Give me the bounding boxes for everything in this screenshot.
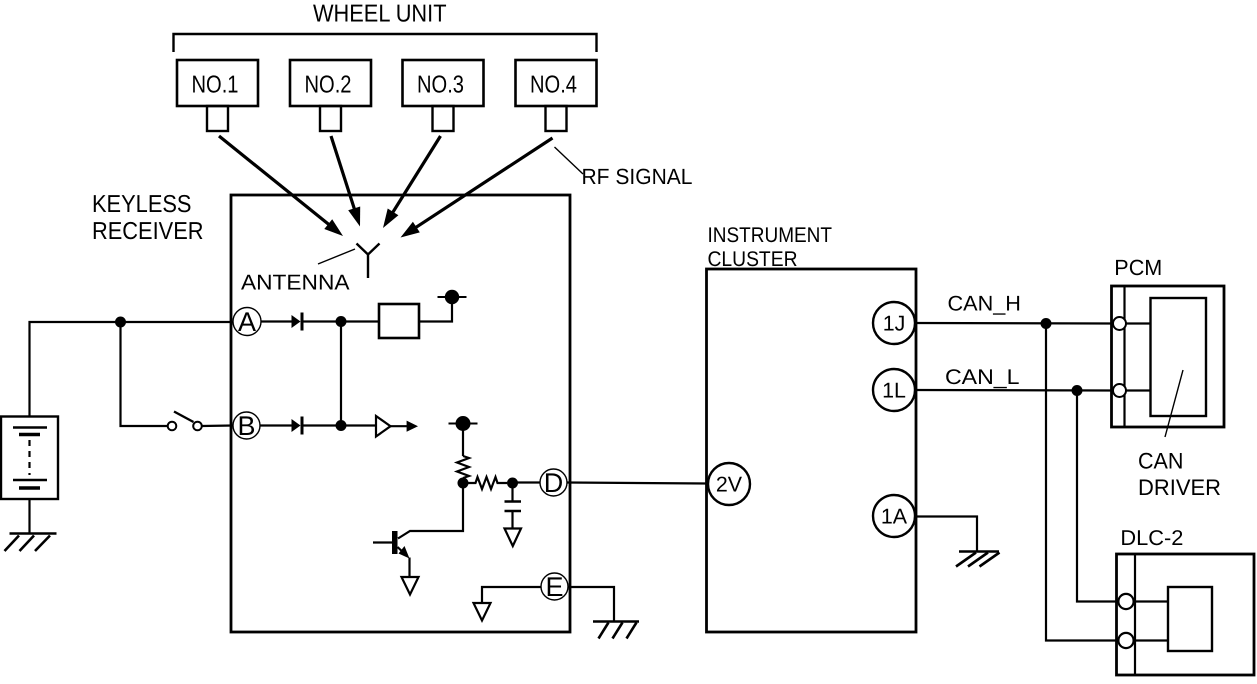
wire B to diode (260, 424, 292, 426)
wire supply to resistor R1 (462, 430, 464, 456)
terminal B (233, 411, 260, 441)
wire DLC-2 pin to block (H) (1134, 639, 1169, 641)
svg-text:RF SIGNAL: RF SIGNAL (582, 164, 693, 189)
wire 1A to chassis ground (915, 517, 977, 552)
terminal 1A (873, 495, 915, 537)
junction dot CAN_L (1072, 385, 1083, 396)
PCM pin CAN_H (1113, 317, 1126, 330)
svg-text:ANTENNA: ANTENNA (241, 271, 350, 295)
svg-text:CAN_L: CAN_L (945, 366, 1020, 389)
DLC-2 connector strip (1134, 554, 1136, 675)
wire E to internal ground (482, 587, 541, 603)
capacitor C1 (505, 483, 522, 529)
svg-text:D: D (544, 468, 564, 498)
chassis ground (1A) (956, 552, 1000, 567)
wire filter to supply (419, 300, 452, 322)
svg-text:RECEIVER: RECEIVER (92, 218, 204, 245)
PCM box (1112, 286, 1225, 427)
wire diode to amplifier (304, 424, 377, 426)
wheel unit sensor NO.4 (516, 60, 597, 131)
junction dot output node (507, 478, 518, 489)
wire diode to junction to filter (304, 320, 380, 322)
PCM pin CAN_L (1113, 384, 1126, 397)
chassis ground (battery) (5, 534, 57, 552)
wire switch to terminal B (202, 424, 233, 427)
wire CAN_L branch to DLC-2 (1077, 391, 1119, 602)
RF SIGNAL callout line (555, 147, 584, 174)
wire D to instrument cluster 2V (567, 483, 708, 484)
transistor Q1 (373, 531, 410, 559)
DLC-2 pin CAN_H (1118, 633, 1133, 648)
wire DLC-2 pin to block (L) (1134, 600, 1169, 602)
wire CAN_H branch to DLC-2 (1046, 324, 1119, 641)
wheel unit sensor NO.1 (177, 60, 258, 131)
terminal E (541, 572, 568, 602)
wheel unit sensor NO.2 (290, 60, 371, 131)
svg-text:DRIVER: DRIVER (1138, 475, 1221, 500)
switch (168, 412, 202, 431)
resistor R1 (vertical) (457, 456, 469, 478)
RF signal arrow from NO.4 to antenna (401, 138, 553, 238)
svg-text:1L: 1L (882, 379, 906, 403)
instrument cluster box (707, 269, 917, 632)
DLC-2 pin CAN_L (1118, 594, 1133, 609)
wire junction down to switch (121, 322, 169, 426)
signal ground (emitter) (402, 577, 419, 595)
svg-text:KEYLESS: KEYLESS (92, 191, 192, 218)
RF signal arrow from NO.3 to antenna (383, 136, 441, 228)
supply tap (A line) (438, 290, 467, 304)
svg-text:CLUSTER: CLUSTER (708, 248, 798, 271)
junction dot CAN_H (1041, 318, 1052, 329)
svg-text:DLC-2: DLC-2 (1120, 526, 1183, 550)
antenna callout line (318, 249, 355, 264)
wire 1J to PCM (CAN_H) (915, 322, 1114, 325)
svg-text:B: B (237, 411, 255, 441)
wire A to diode (261, 320, 292, 322)
terminal 2V (708, 463, 750, 505)
CAN driver block (1151, 298, 1207, 416)
terminal D (540, 468, 567, 498)
PCM connector strip (1123, 286, 1125, 427)
terminal 1J (873, 302, 915, 344)
amplifier buffer (376, 416, 418, 437)
svg-text:NO.1: NO.1 (192, 72, 239, 99)
junction dot node B line (336, 420, 347, 431)
svg-text:1J: 1J (883, 312, 906, 336)
antenna symbol (357, 244, 380, 279)
junction dot node A line (336, 316, 347, 327)
svg-text:2V: 2V (716, 473, 743, 497)
wire E to chassis ground (568, 587, 614, 622)
wire detector node to transistor collector (398, 483, 463, 539)
svg-text:A: A (238, 307, 256, 337)
filter block (379, 304, 419, 338)
signal ground (E internal) (474, 603, 491, 621)
battery (1, 417, 58, 500)
wheel unit sensor NO.3 (403, 60, 484, 131)
bracket over wheel unit sensors (174, 34, 597, 52)
wire emitter to ground (408, 558, 410, 578)
CAN driver callout line (1165, 370, 1183, 437)
DLC-2 block (1168, 587, 1212, 651)
svg-text:CAN_H: CAN_H (948, 293, 1021, 316)
svg-text:WHEEL UNIT: WHEEL UNIT (313, 1, 447, 28)
wire battery to node A (30, 322, 234, 417)
RF signal arrow from NO.2 to antenna (331, 136, 360, 227)
wire PCM pin to CAN driver (H) (1126, 322, 1151, 324)
wire battery to ground (28, 499, 30, 534)
keyless receiver box (231, 195, 570, 632)
svg-text:INSTRUMENT: INSTRUMENT (708, 224, 833, 247)
supply tap (detector) (449, 416, 478, 431)
svg-text:NO.2: NO.2 (305, 72, 352, 99)
DLC-2 box (1117, 554, 1255, 675)
svg-text:PCM: PCM (1114, 255, 1162, 280)
wire output node to terminal D (513, 481, 541, 483)
junction dot at battery feed (115, 317, 126, 328)
svg-text:E: E (545, 572, 563, 602)
terminal 1L (873, 369, 915, 411)
wire 1L to PCM (CAN_L) (915, 389, 1114, 392)
signal ground (capacitor) (505, 529, 522, 547)
chassis ground (E) (593, 622, 639, 639)
svg-text:CAN: CAN (1138, 448, 1184, 473)
svg-text:NO.4: NO.4 (530, 72, 577, 99)
terminal A (233, 307, 261, 337)
wire PCM pin to CAN driver (L) (1126, 389, 1151, 391)
diode (A line) (292, 313, 303, 331)
svg-text:1A: 1A (881, 505, 908, 529)
junction dot detector node (458, 478, 469, 489)
resistor R2 (horizontal) (463, 477, 507, 489)
wire between junctions A-B (340, 322, 342, 426)
RF signal arrow from NO.1 to antenna (219, 136, 343, 236)
svg-text:NO.3: NO.3 (417, 72, 464, 99)
diode (B line) (292, 417, 303, 435)
